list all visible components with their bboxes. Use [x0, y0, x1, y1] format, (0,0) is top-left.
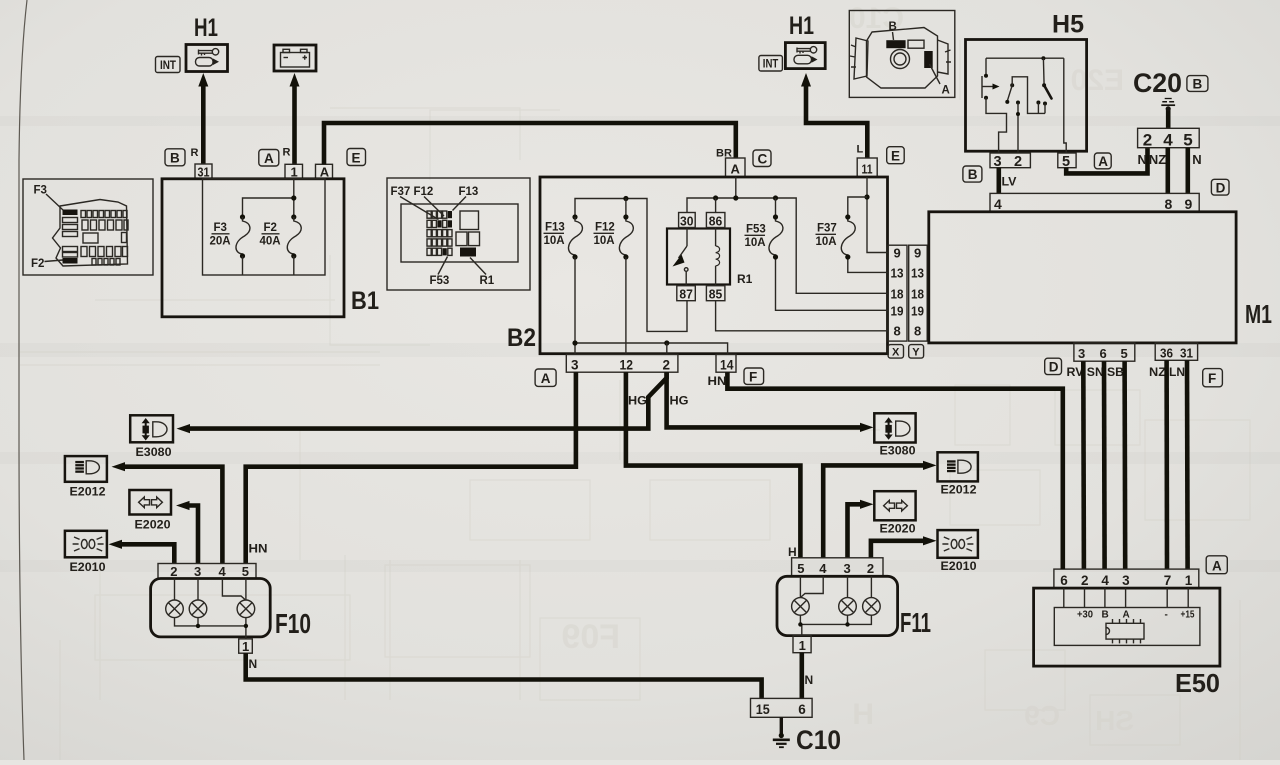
wire: B2 pin2 HG branch right to E3080 right: [667, 372, 874, 432]
component F10 (left headlamp unit): [151, 579, 271, 637]
bulb (turn): [189, 600, 207, 618]
svg-text:13: 13: [891, 266, 904, 281]
H1 right icon box (ignition key symbol): [785, 43, 825, 69]
fuse F53 10A: [745, 198, 889, 310]
junction 86: [713, 195, 718, 200]
svg-text:E: E: [352, 150, 361, 165]
svg-text:4: 4: [219, 564, 227, 579]
svg-text:6: 6: [798, 702, 806, 717]
svg-text:A: A: [1098, 154, 1108, 169]
svg-text:L: L: [857, 144, 864, 156]
svg-text:+15: +15: [1181, 610, 1195, 621]
svg-text:5: 5: [1121, 346, 1128, 361]
svg-text:E: E: [891, 149, 900, 164]
connector A (rounded, E50): [1206, 556, 1227, 574]
svg-text:86: 86: [709, 213, 723, 228]
svg-text:A: A: [541, 371, 551, 386]
F11 bulb leads: [800, 576, 871, 597]
inset: fuse panel location drawing (F3/F2): [23, 179, 153, 275]
wire: pin1 riser to F2: [293, 179, 295, 217]
svg-text:5: 5: [1183, 130, 1192, 149]
svg-text:R1: R1: [480, 275, 495, 287]
wire/arrow: E2012 right feed from F11 pin4: [823, 461, 936, 558]
svg-text:2: 2: [867, 561, 874, 576]
pin A of B1: [316, 164, 333, 179]
switch A (black): [924, 51, 933, 68]
wire: B1 pin A up and over to B2 pin A (BR): [324, 123, 736, 164]
wire: B2 pin3 down-left to F10 pin5 (HN): [246, 372, 576, 563]
connector B (rounded): [165, 149, 185, 166]
bulb (position): [863, 598, 881, 616]
svg-text:4: 4: [819, 561, 827, 576]
svg-text:F12: F12: [595, 222, 615, 234]
relay pin 87: [677, 286, 696, 302]
middle contact: [1010, 83, 1014, 87]
svg-text:4: 4: [1101, 573, 1109, 588]
junction on F2 riser: [291, 195, 296, 200]
svg-text:RV: RV: [1067, 365, 1084, 379]
fuse F2 40A: [260, 214, 302, 275]
svg-text:3: 3: [844, 561, 851, 576]
svg-text:E3080: E3080: [880, 446, 916, 458]
svg-text:SN: SN: [1087, 365, 1104, 379]
svg-text:40A: 40A: [260, 236, 281, 248]
svg-text:31: 31: [1180, 346, 1193, 361]
svg-text:H1: H1: [194, 14, 218, 42]
svg-text:31: 31: [198, 165, 210, 180]
svg-text:INT: INT: [763, 59, 779, 71]
connector B (rounded, C20): [1187, 76, 1208, 92]
right contact (closed, thick): [1042, 58, 1045, 85]
leader lines: [45, 194, 64, 262]
wire/arrow: E2010 left feed from F10 pin2: [109, 540, 175, 564]
H1 icon box (ignition key symbol): [186, 45, 228, 72]
svg-text:B: B: [170, 151, 180, 166]
wire: M1 pin5 to E50 pin3 (SB): [1122, 361, 1127, 569]
svg-text:F2: F2: [264, 222, 277, 234]
component E50 (check panel): [1034, 588, 1220, 666]
wire: 86 riser: [715, 198, 717, 213]
svg-text:1: 1: [242, 639, 249, 654]
svg-text:-: -: [1165, 610, 1168, 621]
left column fuses: [63, 210, 78, 216]
right branch down to pin 5: [1064, 58, 1066, 153]
svg-text:H: H: [788, 545, 797, 559]
svg-text:11: 11: [862, 162, 873, 177]
svg-text:B: B: [1102, 610, 1109, 621]
svg-text:5: 5: [797, 561, 804, 576]
junction A: [733, 195, 738, 200]
svg-text:HN: HN: [249, 542, 268, 556]
svg-text:NZ: NZ: [1149, 365, 1166, 379]
svg-text:H: H: [852, 698, 874, 731]
wire: C20 pin5 to M1 pin9 (N): [1186, 148, 1191, 194]
svg-text:E2010: E2010: [70, 562, 106, 574]
connector A (rounded): [259, 150, 279, 167]
svg-text:F13: F13: [545, 222, 565, 234]
component M1 (instrument panel): [929, 212, 1236, 343]
E50 internal leads: [1064, 588, 1188, 607]
symbol E3080 right: [874, 413, 915, 457]
INT box (left): [156, 57, 181, 73]
svg-text:+30: +30: [1077, 610, 1093, 621]
svg-text:R: R: [191, 147, 199, 159]
svg-text:HG: HG: [628, 394, 647, 408]
wire/arrow: B2 pin11 (L) up to H1 right: [801, 73, 867, 158]
connector C (rounded): [753, 150, 771, 167]
svg-text:F: F: [749, 369, 757, 384]
svg-text:A: A: [1123, 610, 1130, 621]
B1 internal bus box: [203, 179, 326, 275]
svg-text:C10: C10: [796, 725, 841, 755]
svg-text:F2: F2: [31, 258, 44, 270]
svg-text:R: R: [283, 147, 291, 159]
svg-text:B2: B2: [507, 324, 536, 352]
small fuse grid top row: [81, 211, 128, 266]
svg-text:F53: F53: [430, 275, 450, 287]
connector B (rounded, H5): [963, 166, 982, 182]
connector E (rounded): [347, 149, 366, 166]
svg-text:9: 9: [914, 246, 921, 261]
svg-text:20A: 20A: [210, 236, 231, 248]
svg-text:3: 3: [194, 564, 201, 579]
ground at C10: [773, 717, 790, 747]
wire: A pin into bus: [735, 177, 737, 198]
symbol E2020 left (turn signals): [129, 490, 171, 532]
bulb (head lamp): [792, 598, 810, 616]
svg-text:E2010: E2010: [941, 561, 977, 573]
relay pin 30: [679, 213, 696, 229]
wire: bottom link pin3/pin2/pin14: [575, 343, 728, 354]
svg-text:E2020: E2020: [880, 524, 916, 536]
F10 ground bus: [175, 618, 246, 639]
svg-text:8: 8: [914, 324, 921, 339]
B2 bottom pin strip 3 12 2: [566, 354, 678, 372]
wire: M1 pin31 to E50 pin1 (LN): [1185, 360, 1190, 569]
svg-text:R1: R1: [737, 272, 753, 286]
svg-text:N: N: [249, 657, 258, 671]
wire: M1 pin36 to E50 pin7 (NZ): [1164, 360, 1169, 569]
connector C20 pins 2 4 5: [1138, 128, 1200, 149]
pin 31 of B1: [195, 164, 212, 180]
wire: F12 down to pin 12: [625, 257, 627, 354]
svg-text:LV: LV: [1002, 175, 1017, 189]
F11 ground bus: [800, 615, 871, 635]
fuse F3 20A: [210, 214, 250, 275]
svg-text:E20: E20: [1071, 64, 1124, 97]
E50 inner box: [1054, 608, 1200, 646]
bus from relay 30/86/A/F53 to pin18: [687, 198, 888, 293]
relay pin 85: [706, 286, 725, 302]
svg-text:2: 2: [1143, 130, 1152, 149]
INT box (right): [759, 56, 783, 72]
svg-text:2: 2: [1081, 573, 1089, 588]
svg-text:10A: 10A: [745, 237, 766, 249]
svg-text:SB: SB: [1107, 365, 1124, 379]
svg-text:4: 4: [1163, 130, 1173, 149]
svg-text:1: 1: [291, 164, 298, 179]
svg-text:F10: F10: [275, 608, 311, 639]
wire: F11 pin1 to C10 pin6 (N): [799, 653, 804, 699]
svg-text:10A: 10A: [816, 236, 837, 248]
inset: B2 fuse/relay location drawing: [387, 178, 530, 290]
left stalk: [850, 38, 868, 79]
symbol E2012 left (low beam): [65, 456, 107, 498]
fuse F12 10A: [594, 214, 634, 259]
F10 pin 1: [239, 639, 253, 654]
pin A of B2: [726, 158, 746, 177]
wire: F12 riser: [625, 199, 627, 217]
symbol E3080 left (headlamp leveling): [130, 415, 173, 459]
wire/arrow: E2020 left feed from F10 pin3: [176, 501, 198, 564]
svg-text:M1: M1: [1245, 299, 1272, 329]
battery symbol box: [274, 45, 316, 71]
wire/arrow: B1 pin31 up to H1: [198, 73, 208, 164]
svg-text:B: B: [1193, 77, 1203, 92]
svg-text:3: 3: [1078, 346, 1085, 361]
svg-text:LN: LN: [1169, 365, 1185, 379]
svg-text:D: D: [1049, 360, 1059, 375]
svg-text:F13: F13: [459, 186, 479, 198]
svg-text:5: 5: [242, 564, 249, 579]
connector E (rounded, right): [887, 147, 905, 164]
svg-text:INT: INT: [160, 58, 177, 72]
svg-text:E50: E50: [1175, 668, 1220, 698]
svg-text:9: 9: [894, 246, 901, 261]
column shroud outline: [867, 28, 938, 89]
bulb (turn): [839, 598, 857, 616]
svg-text:3: 3: [571, 358, 579, 373]
svg-text:36: 36: [1160, 346, 1173, 361]
svg-text:E2012: E2012: [941, 485, 977, 497]
svg-text:X: X: [892, 347, 900, 359]
M1 left pin column: [909, 245, 928, 341]
junction F12: [623, 196, 628, 201]
svg-text:D: D: [1216, 180, 1226, 195]
F10 pin strip 2 3 4 5: [158, 564, 256, 580]
wire/arrow: E2012 left feed from F10 pin4: [112, 462, 223, 563]
svg-text:B: B: [968, 167, 978, 182]
wire: B2 pin14 to E50 pin6 (HN): [727, 372, 1062, 569]
connector A (rounded, H5): [1094, 153, 1111, 169]
step to pin 3: [986, 98, 1007, 153]
middle open terminal to pin 2: [1016, 101, 1020, 105]
component B2 (junction unit): [540, 177, 888, 354]
svg-text:SH: SH: [1095, 705, 1134, 736]
svg-text:18: 18: [911, 287, 924, 302]
wire: F13/F12 feed bus from relay 87: [575, 199, 687, 332]
connector F (rounded, B2 pin14): [744, 368, 764, 384]
page left edge line: [19, 0, 27, 760]
wire/arrow: B1 pin1 up to battery: [290, 73, 300, 164]
svg-text:30: 30: [680, 213, 694, 228]
svg-text:10A: 10A: [544, 235, 565, 247]
svg-text:E2020: E2020: [135, 520, 171, 532]
relay coil 86-85: [716, 228, 720, 286]
switch B (black): [886, 40, 905, 48]
svg-text:B: B: [889, 21, 897, 33]
svg-text:3: 3: [1122, 573, 1130, 588]
symbol E2010 right: [938, 530, 978, 573]
connector X (rounded): [888, 345, 903, 359]
svg-text:C20: C20: [1133, 68, 1182, 98]
wire: B2 pin12 down-right to F11 pin5 (H): [626, 372, 801, 558]
relay pin 86: [706, 213, 725, 229]
wire: M1 pin6 to E50 pin4 (SN): [1102, 361, 1107, 569]
svg-text:8: 8: [894, 324, 901, 339]
F11 pin strip 5 4 3 2: [792, 558, 883, 577]
wire: H5 pin5 to C20 pin2 (N): [1066, 148, 1147, 174]
svg-text:E2012: E2012: [70, 487, 106, 499]
H5 pin 5: [1058, 153, 1076, 170]
svg-text:6: 6: [1060, 573, 1068, 588]
svg-text:87: 87: [679, 287, 693, 302]
connector Y (rounded): [909, 345, 924, 359]
svg-text:HG: HG: [670, 394, 689, 408]
connector F (rounded, M1 bottom): [1203, 369, 1223, 387]
svg-text:B1: B1: [351, 287, 379, 315]
leader lines: [893, 32, 941, 84]
component F11 (right headlamp unit): [777, 576, 898, 635]
relay contact 30-87: [673, 228, 689, 286]
wire: C20 pin4 to M1 pin8 (NZ): [1166, 148, 1171, 194]
svg-text:6: 6: [1100, 346, 1107, 361]
svg-text:HN: HN: [708, 374, 727, 388]
svg-text:F11: F11: [900, 607, 931, 638]
M1 top pin strip 4 8 9: [990, 193, 1199, 212]
H5 internal switch diagram: [982, 56, 1066, 153]
left contact with arrow: [985, 58, 987, 76]
leader lines: [400, 197, 486, 275]
svg-text:9: 9: [1185, 196, 1193, 212]
bulb (position): [166, 600, 184, 618]
symbol E2012 right: [938, 452, 978, 496]
pin 1 of B1: [285, 164, 303, 179]
top bus: [986, 57, 1064, 59]
svg-text:A: A: [1212, 558, 1222, 573]
svg-text:F12: F12: [414, 186, 434, 198]
connector D (rounded, M1 top): [1211, 179, 1229, 195]
wire: branch to F3: [243, 198, 294, 217]
svg-text:F09: F09: [561, 618, 620, 656]
svg-text:2: 2: [1014, 154, 1022, 170]
svg-text:15: 15: [756, 702, 770, 717]
wire: pin11 feed into B2 (to F37 and pin 9): [867, 177, 888, 253]
wire: H5 pin3 to M1 pin4 (LV): [996, 168, 1001, 194]
svg-text:12: 12: [620, 358, 634, 373]
svg-text:10A: 10A: [594, 235, 615, 247]
wire: F10 pin1 to C10 pin15 (N): [246, 653, 762, 698]
F11 pin4 internal link: [801, 576, 823, 597]
M1 bottom pin strip 3 6 5: [1074, 343, 1135, 361]
svg-text:5: 5: [1062, 154, 1070, 170]
svg-text:C: C: [758, 152, 768, 167]
svg-text:8: 8: [1165, 196, 1173, 212]
svg-text:E3080: E3080: [136, 447, 172, 459]
symbol E2010 left (position lamps): [65, 531, 107, 574]
connector D (rounded, M1 bottom): [1045, 358, 1062, 374]
component B1 (fuse box): [162, 179, 344, 317]
E50 pin strip 6 2 4 3 7 1: [1054, 569, 1199, 588]
svg-text:85: 85: [709, 287, 723, 302]
pin 11 of B2: [857, 158, 877, 177]
svg-text:C9: C9: [1024, 700, 1060, 731]
svg-text:F37: F37: [817, 223, 837, 235]
panel outline: [53, 200, 128, 267]
svg-text:1: 1: [1185, 573, 1193, 588]
svg-text:A: A: [320, 164, 330, 179]
svg-text:F53: F53: [746, 224, 766, 236]
bulb (head lamp): [237, 600, 255, 618]
svg-text:7: 7: [1164, 573, 1172, 588]
inset: steering column switch drawing: [849, 11, 955, 98]
wire/arrow: E2010 right feed from F11 pin2: [871, 536, 937, 558]
svg-text:N: N: [805, 673, 814, 687]
svg-text:H1: H1: [789, 12, 814, 40]
svg-text:14: 14: [720, 358, 734, 373]
F11 pin 1: [793, 636, 811, 653]
svg-text:19: 19: [911, 304, 924, 319]
B2 right pin column: [888, 245, 907, 341]
H5 pin strip 3 2: [990, 153, 1030, 170]
svg-text:H5: H5: [1052, 11, 1084, 39]
svg-text:F3: F3: [214, 222, 227, 234]
svg-text:1: 1: [799, 638, 806, 653]
svg-text:F: F: [1208, 371, 1216, 386]
B2 pin 14: [716, 354, 736, 372]
svg-text:A: A: [731, 162, 741, 177]
wire: relay 85 to pin 8: [716, 301, 889, 331]
svg-text:2: 2: [170, 564, 177, 579]
fuse grid: [427, 211, 452, 255]
svg-text:3: 3: [994, 154, 1002, 170]
M1 bottom pin strip 36 31: [1155, 343, 1197, 361]
fuse F13 10A: [544, 214, 583, 259]
svg-text:N: N: [1192, 152, 1201, 167]
connector C10 pins 15 6: [751, 698, 813, 717]
junction F53: [773, 195, 778, 200]
svg-text:19: 19: [891, 304, 904, 319]
splice termination above C20 pin 4: [1161, 99, 1175, 129]
relay R1: [667, 229, 753, 287]
svg-text:N: N: [1138, 152, 1147, 167]
svg-text:18: 18: [891, 287, 904, 302]
connector A (rounded, B2 bottom): [535, 369, 556, 386]
wire: B2 pin2 HG branch left to E3080 left: [177, 372, 667, 433]
right stalk: [938, 40, 952, 74]
svg-text:Y: Y: [912, 347, 920, 359]
svg-text:NZ: NZ: [1149, 152, 1167, 167]
wire/arrow: E2020 right feed from F11 pin3: [848, 500, 874, 558]
fuse F37 10A: [816, 197, 889, 272]
svg-text:13: 13: [911, 266, 924, 281]
symbol E2020 right: [874, 491, 915, 535]
svg-text:A: A: [264, 151, 274, 166]
svg-text:A: A: [942, 85, 950, 97]
E50 IC chip symbol: [1106, 619, 1144, 643]
wire: M1 pin3 to E50 pin2 (RV): [1081, 361, 1086, 569]
svg-text:2: 2: [663, 358, 671, 373]
svg-text:F3: F3: [34, 185, 47, 197]
component H5 (light switch): [966, 40, 1087, 152]
F10 pin4 internal link: [222, 579, 245, 600]
wire: F13 down to pin 3: [574, 257, 576, 354]
F10 bulb leads: [175, 579, 246, 601]
svg-text:4: 4: [994, 196, 1002, 212]
